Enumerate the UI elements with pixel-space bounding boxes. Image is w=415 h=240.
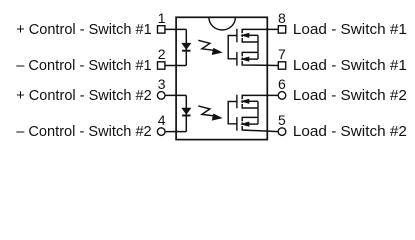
svg-text:2: 2 xyxy=(158,46,166,62)
pin 3 pad xyxy=(157,92,165,100)
MOSFET M1/M2 common gate bracket xyxy=(228,36,237,59)
common source bus M3/M4 xyxy=(257,101,259,124)
light arrow channel 1 (light emission arrow LED to MOSFET) xyxy=(198,40,222,55)
common source bus M1/M2 xyxy=(257,35,259,59)
MOSFET M2 body arrow xyxy=(240,57,258,62)
LED D2 branch wire xyxy=(185,95,187,131)
MOSFET M4 body arrow xyxy=(240,122,258,127)
svg-text:Load - Switch #2: Load - Switch #2 xyxy=(293,87,407,104)
light arrow channel 2 (light emission arrow LED to MOSFET) xyxy=(198,106,222,121)
svg-text:Load - Switch #2: Load - Switch #2 xyxy=(293,123,407,140)
wire pin to LED D2 anode xyxy=(165,94,187,96)
svg-text:– Control - Switch #1: – Control - Switch #1 xyxy=(16,57,152,74)
svg-text:6: 6 xyxy=(278,76,286,92)
wire pin to LED D1 cathode xyxy=(165,65,187,67)
svg-text:3: 3 xyxy=(158,76,166,92)
MOSFET M2 gate bar xyxy=(236,52,238,66)
pin 4 pad xyxy=(157,128,165,136)
pin 6 pad xyxy=(278,92,286,100)
MOSFET M3/M4 common gate bracket xyxy=(228,102,237,124)
MOSFET M2 source channel-dash and source lead xyxy=(242,52,258,56)
pin 1 pad xyxy=(158,26,165,33)
MOSFET M3 body arrow xyxy=(240,99,258,104)
wire pin to LED D1 anode xyxy=(165,28,187,30)
MOSFET M4 middle channel dash xyxy=(241,122,243,125)
MOSFET M1 gate bar xyxy=(236,29,238,43)
MOSFET M2 drain channel-dash and drain wire to pin 7 xyxy=(242,61,278,65)
MOSFET M1 body arrow xyxy=(240,33,258,38)
MOSFET M4 drain channel-dash and drain wire to pin 5 xyxy=(242,126,278,132)
MOSFET M4 gate bar xyxy=(236,117,238,131)
LED D1 branch wire xyxy=(185,29,187,65)
wire pin to LED D2 cathode xyxy=(165,131,187,133)
svg-text:Load - Switch #1: Load - Switch #1 xyxy=(293,21,407,38)
svg-text:1: 1 xyxy=(158,10,166,26)
MOSFET M1 drain channel-dash and drain wire to pin 8 xyxy=(242,29,278,33)
MOSFET M1 middle channel dash xyxy=(241,34,243,37)
MOSFET M3 middle channel dash xyxy=(241,100,243,103)
pin-1 end notch (top-center index semicircle) xyxy=(209,17,236,30)
MOSFET M1 source channel-dash and source lead xyxy=(242,38,258,42)
svg-text:+ Control - Switch #2: + Control - Switch #2 xyxy=(16,87,152,104)
LED D2 (input LED) xyxy=(181,108,191,116)
LED D1 (input LED) xyxy=(181,43,191,51)
svg-text:+ Control - Switch #1: + Control - Switch #1 xyxy=(16,21,152,38)
pin 8 pad xyxy=(278,26,285,33)
MOSFET M3 gate bar xyxy=(236,95,238,109)
svg-text:Load - Switch #1: Load - Switch #1 xyxy=(293,57,407,74)
svg-text:8: 8 xyxy=(278,10,286,26)
pin 7 pad xyxy=(278,62,285,69)
svg-text:7: 7 xyxy=(278,46,286,62)
pin 5 pad xyxy=(278,128,286,136)
svg-text:5: 5 xyxy=(278,112,286,128)
MOSFET M4 source channel-dash and source lead xyxy=(242,117,258,121)
svg-text:– Control - Switch #2: – Control - Switch #2 xyxy=(16,123,152,140)
MOSFET M2 middle channel dash xyxy=(241,57,243,60)
MOSFET M3 drain channel-dash and drain wire to pin 6 xyxy=(242,95,278,99)
pin 2 pad xyxy=(158,62,165,69)
svg-text:4: 4 xyxy=(158,112,166,128)
IC body U1 outline xyxy=(176,17,267,139)
MOSFET M3 source channel-dash and source lead xyxy=(242,104,258,108)
